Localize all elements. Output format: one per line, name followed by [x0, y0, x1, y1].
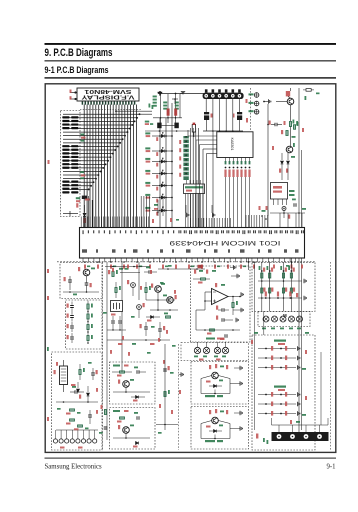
display grid pins [82, 102, 84, 105]
key scan diode column wires [159, 118, 161, 228]
capacitor C14 [70, 326, 74, 328]
diode DK bottom [84, 205, 86, 213]
vertical bus B2 lower [320, 352, 322, 425]
key row wires A [258, 280, 302, 282]
IC03 driver [217, 132, 253, 158]
IC03 left pin wires [188, 135, 217, 137]
red designator mid [246, 118, 248, 123]
trimmer row enclosure [258, 312, 310, 327]
resistor R52 [145, 288, 147, 293]
resistor array RA01 [183, 136, 188, 180]
capacitor C06 [275, 123, 277, 127]
resistor R45 [70, 409, 75, 411]
array bus wires [190, 128, 192, 228]
resistor labels group C [76, 197, 80, 199]
resistor labels group A [81, 134, 85, 136]
resistor R56 [120, 417, 125, 419]
ground G13 [298, 365, 300, 369]
transistor Q05 [167, 297, 174, 304]
trimmer VR9 [297, 316, 303, 322]
extra green fleck right 2 [291, 156, 295, 158]
parts right of box3 [104, 410, 106, 415]
vertical bus B1b [301, 150, 303, 430]
resistor R82 [258, 357, 296, 359]
extra bottom flecks [112, 268, 114, 272]
resistor R77 [289, 292, 291, 297]
frame-edge red mark 3 [47, 417, 49, 421]
jumper pads link wire [162, 124, 175, 126]
label row under display right [145, 121, 149, 123]
resistor R43 [87, 325, 89, 330]
test point TP2 [254, 101, 259, 106]
resistor labels group B [80, 171, 84, 173]
key row wires B [258, 297, 302, 299]
CN03 entry wires [272, 424, 329, 426]
ground G11 [298, 346, 300, 350]
resistor R51 [112, 272, 114, 277]
trimmer VR8 [289, 316, 295, 322]
resistor label near S07 [156, 212, 158, 216]
resistor R72B [269, 288, 271, 293]
resistor R71 [259, 266, 261, 270]
green pair under micom [119, 268, 123, 270]
crystal X01 [111, 301, 123, 312]
wire stub MOTOR-A [214, 390, 216, 394]
capacitor CV1 red body [167, 109, 170, 116]
ground G7 [240, 411, 242, 415]
capacitor C30 [222, 308, 224, 312]
wire bus x268 [267, 104, 269, 228]
line filter L01 [60, 366, 68, 385]
dashed enclosure trimmer row [181, 343, 249, 361]
resistor label near S01 [156, 137, 158, 141]
diode D20 [214, 430, 217, 433]
capacitor C23 [118, 321, 122, 323]
key switch S05 [145, 182, 150, 184]
transistor Q02 [286, 146, 293, 153]
cluster right above micom [259, 206, 261, 210]
trimmer VR7 [280, 316, 286, 322]
MOTOR-B bridge wires [200, 424, 202, 439]
diode D03 [161, 160, 164, 163]
jumper pad J2 [174, 123, 178, 129]
ground G2 [237, 274, 239, 278]
dashed enclosure SW-R [252, 335, 315, 450]
trimmer VR2 [203, 347, 209, 353]
ground G15 [298, 402, 300, 406]
wire drop right D2 [291, 258, 293, 268]
red label near C01 [211, 114, 213, 118]
capacitor C26 [137, 370, 139, 374]
red marks above micom [152, 219, 154, 223]
capacitor C21 electrolytic [137, 305, 142, 310]
jumper cluster verticals [160, 94, 162, 123]
wire right bus 1b [269, 262, 271, 298]
diode D15b [77, 382, 79, 388]
resistor R33 [293, 125, 295, 130]
wire mid-bottom H [156, 424, 178, 426]
cluster header label 1 [274, 340, 286, 342]
extra red fleck right 1 [272, 146, 274, 150]
red mark near CN03 [256, 434, 258, 439]
resistor R14 [62, 188, 69, 190]
green label stack A [153, 96, 157, 98]
resistor R46 [70, 419, 75, 421]
diode D19 [214, 385, 217, 388]
diode D02 [161, 150, 164, 153]
resistor R05 [62, 145, 69, 147]
green label stack C [175, 102, 179, 104]
frame-edge red mark 1 [47, 269, 49, 273]
resistor R62 [232, 303, 234, 308]
dashed enclosure PSU-B [66, 300, 103, 349]
connector pin P2 of display [70, 98, 77, 100]
connector CN01 [203, 93, 244, 99]
capacitor C17 [88, 415, 92, 417]
op-amp U01 [212, 289, 229, 305]
resistor R09 [62, 160, 69, 162]
resistor R61 [201, 278, 206, 280]
resistor label near S02 [156, 152, 158, 156]
resistor R55 [120, 371, 125, 373]
svg-text:IC01 MICOM HD404339: IC01 MICOM HD404339 [169, 239, 281, 246]
resistor R07 [62, 152, 69, 154]
wire right bus 2 [263, 311, 265, 335]
resistor R48 [78, 425, 83, 427]
MOTOR-A bridge wires [200, 379, 202, 394]
resistor R06 [62, 149, 69, 151]
resistor R53 [166, 316, 171, 318]
top right fleck [316, 93, 320, 95]
wire under cluster [145, 130, 190, 132]
resistor R10 [62, 163, 69, 165]
IC04 reset [271, 183, 288, 200]
diode D04 [161, 172, 164, 175]
svg-text:KA8301: KA8301 [230, 138, 234, 151]
resistor R13 [62, 184, 69, 186]
capacitor C02 [237, 112, 242, 114]
resistor R32 [286, 131, 288, 136]
resistor R25 label [85, 199, 90, 201]
red mark near divider [179, 390, 181, 394]
key switch S06 [145, 194, 150, 196]
fleck under micom right 1 [273, 265, 275, 269]
key switch S07 [145, 207, 150, 209]
capacitor C20 electrolytic [131, 283, 136, 288]
dashed enclosure top rail [57, 261, 316, 263]
resistor R85 [258, 403, 296, 405]
green fleck right of display [149, 104, 151, 108]
CN01 wires down [205, 99, 207, 112]
capacitor C31 [222, 318, 224, 322]
dashed separator near test points [250, 88, 252, 130]
cluster near top wires [172, 98, 178, 100]
resistor R72 [267, 266, 269, 270]
ground near divider [181, 372, 183, 376]
svg-text:M: M [283, 313, 287, 318]
resistor R86 [258, 413, 296, 415]
IC02 vfd driver [184, 184, 205, 194]
ground G16 [298, 411, 300, 415]
ground GA above micom [185, 205, 187, 213]
IC03 bottom pins [225, 158, 227, 162]
transistor Q01 [287, 98, 294, 105]
resistor R11 [62, 167, 69, 169]
capacitor C08 [294, 203, 296, 207]
diode D16 [151, 316, 154, 319]
wires mid lower [107, 339, 170, 341]
ground G4 [241, 308, 243, 312]
ground G14 [298, 392, 300, 396]
trimmer VR3 [214, 347, 220, 353]
diode D15 [87, 386, 89, 392]
fleck under micom right 2 [286, 265, 290, 267]
dashed enclosure key matrix [61, 111, 81, 217]
MOTOR-B bottom label [205, 440, 215, 442]
cluster left above micom components [154, 204, 158, 206]
capacitor C05 red mark [286, 91, 290, 96]
capacitor C22 [111, 321, 115, 323]
resistor R57 [164, 392, 166, 397]
resistor R08 [62, 156, 69, 158]
trimmer VR1 [194, 347, 200, 353]
trimmer row labels [262, 328, 266, 330]
resistor R12 [62, 181, 69, 183]
red label right of key matrix [83, 218, 86, 223]
extra red fleck right 2 [302, 128, 304, 132]
top right small component [306, 89, 311, 92]
wires mid cluster [146, 299, 175, 301]
wires LINE lower [56, 401, 98, 403]
capacitor C16 [75, 390, 77, 394]
diode D18 [136, 442, 139, 445]
bus horizontal extensions to key column [116, 110, 152, 112]
wires around Q01 [290, 105, 292, 121]
frame-edge green mark [47, 347, 49, 351]
wire stub MOTOR-B [214, 435, 216, 439]
diode D12 [287, 153, 289, 160]
svg-text:9-1 P.C.B Diagrams: 9-1 P.C.B Diagrams [45, 65, 109, 76]
extra green fleck right 3 [305, 96, 307, 100]
capacitor C25 [158, 329, 162, 331]
resistor R02 [62, 120, 69, 122]
dashed enclosure LINE [52, 352, 103, 450]
AMP footer label [206, 338, 215, 340]
wire rail into IC03 [212, 131, 214, 228]
transistor Q07 [123, 427, 130, 434]
resistor R73 [280, 266, 282, 270]
ground GT right of display [181, 92, 185, 94]
ground G1 [269, 99, 271, 103]
diode D17 [136, 396, 139, 399]
schematic frame [45, 84, 336, 453]
trimmer labels [194, 356, 198, 358]
resistor R31 [289, 122, 291, 127]
dashed enclosure AUDIO-B [110, 408, 156, 450]
fuse F01 [192, 125, 195, 133]
AMP input labels [194, 270, 196, 274]
IC02 top pins [186, 180, 188, 184]
resistor R74 [288, 266, 290, 270]
capacitor C11 [85, 283, 89, 285]
rule under section title [45, 77, 337, 78]
wires lower right of power section [270, 212, 305, 214]
ground GB above micom [211, 205, 213, 213]
extra green fleck rows under amp [254, 332, 258, 334]
wires AUDIO-A [113, 391, 150, 393]
CN02 labels [60, 447, 65, 449]
wire to CN02 [56, 429, 98, 431]
capacitor C27 [137, 416, 139, 420]
resistor R50 [115, 288, 117, 293]
dashed enclosure MOTOR-B [191, 407, 249, 450]
extra green fleck right 1 [297, 122, 299, 126]
ground G6 [240, 381, 242, 385]
resistor R01 [62, 116, 69, 118]
capacitor C18 [91, 373, 95, 375]
key switch S04 [145, 170, 150, 172]
connector pin P1 of display [70, 92, 77, 94]
vertical bus B1 [298, 88, 300, 440]
resistor R75 [265, 292, 267, 297]
footer rule [45, 458, 337, 459]
ground G8 [240, 426, 242, 430]
resistor R15 [62, 191, 69, 193]
svg-text:SVM-48N01: SVM-48N01 [84, 88, 131, 94]
capacitor C24 [144, 327, 148, 329]
wire under micom B [158, 268, 205, 270]
header thick rule [45, 43, 337, 45]
trimmer VR5 [263, 316, 269, 322]
capacitor CV2 red body [174, 109, 177, 116]
cap right of box3 [104, 427, 108, 429]
capacitor C10 [68, 280, 72, 282]
wire drop right D1 [248, 258, 250, 270]
resistor R71B [261, 288, 263, 293]
resistor R63 [210, 329, 215, 331]
jumper wire mid [153, 117, 182, 119]
extra flecks right bottom [305, 350, 307, 354]
diode D11 [281, 153, 283, 160]
transistor Q03 [83, 269, 90, 276]
AMP lower wires [196, 309, 205, 311]
resistor R42 [87, 314, 89, 319]
diode D01 [161, 135, 164, 138]
MOTOR-A bottom label [205, 395, 215, 397]
jumper cluster top wires [158, 93, 205, 95]
extra flecks LINE box [56, 362, 58, 366]
resistor R81 [258, 348, 296, 350]
flecks mid-bottom [159, 404, 161, 408]
capacitor C01 [204, 112, 209, 114]
resistor R83 [258, 367, 296, 369]
display wire bus verticals [84, 105, 136, 228]
resistor R44 [87, 336, 89, 341]
dashed enclosure PSU-A [60, 263, 102, 299]
fleck under micom right 3 [301, 265, 303, 269]
ground G9 [304, 279, 306, 283]
resistor R74B [290, 288, 292, 293]
diode D06 [161, 196, 164, 199]
ground under micom right [234, 265, 236, 269]
cluster header label 2 [274, 386, 286, 388]
labels left of RA01 [179, 140, 181, 144]
dashed divider x102 [102, 262, 104, 450]
MOTOR-A input labels [209, 365, 211, 369]
test point TP3 [254, 110, 259, 115]
green fleck under Q02 [292, 136, 296, 138]
MOTOR-B input labels [209, 410, 211, 414]
CN01 top pads [205, 89, 241, 92]
micom bottom pin stubs [83, 258, 296, 262]
IC04 pins [273, 199, 275, 205]
frame-edge red mark 2 [47, 296, 49, 300]
capacitor C07 [282, 207, 286, 211]
wire right bus 1 [254, 262, 256, 430]
ground G10 [304, 296, 306, 300]
key switch S03 [145, 158, 150, 160]
dashed line under display [80, 108, 142, 110]
IC02 pin stubs [185, 194, 187, 228]
pad bottom of key matrix [82, 196, 88, 199]
svg-text:9. P.C.B Diagrams: 9. P.C.B Diagrams [45, 47, 113, 59]
AUDIO-B header label [113, 410, 120, 412]
ground G12 [298, 356, 300, 360]
key switch S01 [145, 132, 150, 134]
jumper pad J1 [157, 123, 161, 129]
op-amp region spacer wire [267, 210, 269, 216]
resistor R04 [62, 127, 69, 129]
rail wire under CN01 [203, 130, 243, 132]
dashed enclosure KEY-R top [252, 263, 315, 312]
ground G3 [241, 292, 243, 296]
connector CN02 pads [53, 430, 96, 443]
wire under micom A [105, 266, 150, 268]
green marks near CN03 left [263, 438, 265, 442]
dashed divider x330 [330, 262, 332, 450]
test point TP1 [254, 93, 259, 98]
wires AUDIO-B [113, 437, 150, 439]
micom lower pin name marks [82, 249, 299, 252]
dashed enclosure MOTOR-A [191, 362, 249, 405]
L01 wires [63, 360, 65, 366]
capacitor C32 [225, 334, 227, 338]
resistor R41 [87, 304, 89, 309]
wire stub bottom of key matrix [69, 211, 71, 216]
resistor R03 [62, 123, 69, 125]
trimmer VR4 [222, 347, 228, 353]
transistor Q06 [123, 381, 130, 388]
diode D07 [161, 209, 164, 212]
capacitor C15 [70, 337, 74, 339]
dashed divider x178 [178, 344, 180, 450]
ground G5 [240, 366, 242, 370]
red mark under micom B [198, 265, 203, 268]
key switch S02 [145, 147, 150, 149]
resistor R73B [282, 288, 284, 293]
trimmer VR6 [272, 316, 278, 322]
capacitor C28 [163, 369, 167, 371]
transistor Q9 [212, 417, 219, 424]
wire under micom C [120, 272, 140, 274]
U01 wires [205, 291, 212, 293]
resistor label near S05 [156, 187, 158, 191]
transistor Q04 [155, 286, 162, 293]
resistor R47 [79, 370, 81, 375]
wires PSU-A [63, 291, 99, 293]
module VFD1 V.F.DISPLAY SVM-48N01 [77, 88, 139, 101]
labels under micom [84, 261, 255, 269]
